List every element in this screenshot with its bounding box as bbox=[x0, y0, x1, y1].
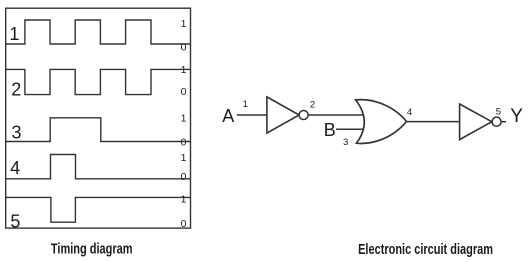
wire B to OR gate U2 bbox=[336, 128, 365, 130]
svg-text:0: 0 bbox=[181, 86, 187, 98]
svg-text:Timing diagram: Timing diagram bbox=[51, 241, 133, 258]
timing diagram outer box bbox=[6, 8, 191, 228]
wire A to U1 bbox=[237, 114, 267, 116]
svg-text:3: 3 bbox=[343, 137, 348, 148]
wire U3 bubble to Y bbox=[501, 121, 506, 123]
svg-text:0: 0 bbox=[181, 42, 187, 54]
svg-text:1: 1 bbox=[181, 64, 187, 76]
waveform row 1 (signal A) bbox=[6, 20, 191, 44]
svg-text:5: 5 bbox=[496, 106, 501, 117]
inverter U1 bubble bbox=[299, 110, 308, 119]
inverter U3 bbox=[460, 104, 492, 140]
waveform row 5 (signal Y) bbox=[6, 197, 191, 222]
waveform row 2 (signal NOT A) bbox=[6, 69, 191, 94]
svg-text:4: 4 bbox=[407, 107, 412, 118]
svg-text:1: 1 bbox=[181, 152, 187, 164]
svg-text:A: A bbox=[222, 106, 234, 126]
wire U1 output to OR gate U2 bbox=[308, 114, 366, 116]
waveform row 4 (OR output) bbox=[6, 155, 191, 179]
inverter U3 bubble bbox=[492, 117, 501, 126]
svg-text:0: 0 bbox=[181, 171, 187, 183]
svg-text:0: 0 bbox=[181, 218, 187, 230]
svg-text:1: 1 bbox=[181, 194, 187, 206]
svg-text:1: 1 bbox=[181, 18, 187, 30]
svg-text:0: 0 bbox=[181, 137, 187, 149]
svg-text:B: B bbox=[324, 120, 336, 140]
svg-text:2: 2 bbox=[310, 100, 315, 111]
svg-text:3: 3 bbox=[12, 123, 22, 143]
svg-text:4: 4 bbox=[10, 158, 20, 178]
svg-text:1: 1 bbox=[181, 112, 187, 124]
svg-text:1: 1 bbox=[9, 24, 19, 44]
inverter U1 bbox=[267, 97, 299, 133]
waveform row 3 (signal B) bbox=[6, 118, 191, 142]
wire OR gate output to U3 bbox=[406, 121, 460, 123]
svg-text:Y: Y bbox=[510, 106, 523, 127]
svg-text:Electronic circuit diagram: Electronic circuit diagram bbox=[358, 241, 493, 258]
svg-text:2: 2 bbox=[11, 79, 21, 99]
svg-text:5: 5 bbox=[10, 211, 20, 231]
svg-text:1: 1 bbox=[243, 99, 248, 110]
OR gate U2 bbox=[356, 100, 407, 144]
